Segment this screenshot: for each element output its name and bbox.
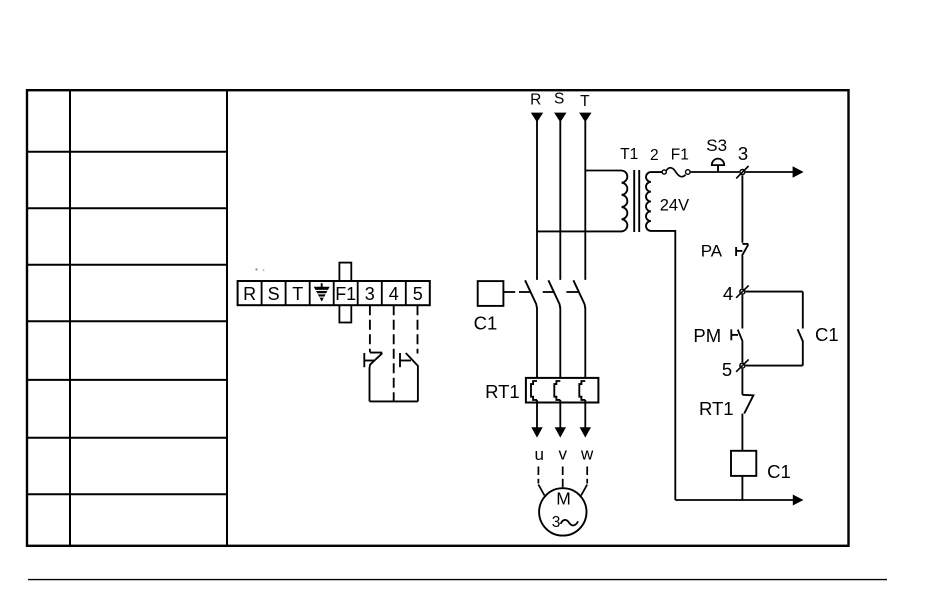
svg-text:24V: 24V <box>660 197 689 215</box>
svg-text:F1: F1 <box>335 284 356 304</box>
svg-text:T1: T1 <box>620 146 638 163</box>
svg-text:5: 5 <box>413 284 423 304</box>
svg-text:2: 2 <box>650 147 659 164</box>
svg-text:M: M <box>556 488 571 508</box>
svg-text:5: 5 <box>722 359 732 380</box>
svg-text:C1: C1 <box>815 324 839 345</box>
svg-text:w: w <box>580 444 594 463</box>
svg-text:S: S <box>554 90 564 107</box>
svg-text:C1: C1 <box>767 461 791 482</box>
svg-text:RT1: RT1 <box>485 381 520 402</box>
svg-text:R: R <box>243 284 256 304</box>
svg-text:T: T <box>292 284 303 304</box>
svg-text:u: u <box>534 445 543 464</box>
svg-text:PA: PA <box>701 242 723 261</box>
svg-text:4: 4 <box>723 283 733 304</box>
svg-text:S3: S3 <box>706 136 727 155</box>
svg-text:R: R <box>530 92 541 109</box>
svg-text:C1: C1 <box>474 313 498 334</box>
svg-text:3: 3 <box>365 284 375 304</box>
svg-text:RT1: RT1 <box>699 398 734 419</box>
svg-text:S: S <box>268 284 280 304</box>
svg-text:PM: PM <box>693 325 721 346</box>
svg-text:4: 4 <box>389 284 399 304</box>
svg-text:F1: F1 <box>671 147 689 164</box>
svg-text:v: v <box>558 444 567 463</box>
svg-text:3: 3 <box>552 514 561 531</box>
svg-text:T: T <box>580 93 590 110</box>
svg-text:3: 3 <box>738 143 748 164</box>
